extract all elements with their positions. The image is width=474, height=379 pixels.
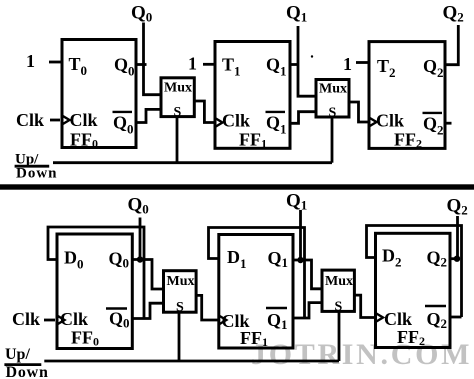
wire mux3 output to FF1 clk (bottom) [196, 295, 219, 320]
wire Q1 pin to mux4 input [293, 260, 322, 289]
wire Q2bar stub [445, 122, 452, 125]
svg-text:Mux: Mux [164, 81, 192, 96]
wire Q2bar pin stub (bottom) [450, 316, 462, 319]
svg-text:S: S [176, 300, 184, 315]
clock wedge FF2 [369, 118, 377, 127]
clock wedge FF1 [215, 118, 223, 127]
wire mux1 S select [176, 117, 179, 163]
flip-flop FF1 (top) box [215, 42, 290, 149]
svg-text:JOTRIN.COM: JOTRIN.COM [251, 338, 472, 371]
wire Q0 pin to mux3 input [132, 260, 163, 290]
svg-text:Clk: Clk [70, 110, 98, 130]
clock wedge FF0 [62, 116, 70, 125]
wire Q2 pin stub (bottom) [450, 257, 459, 260]
wire Q1bar to mux2 lower input [290, 112, 316, 124]
mux MUX4 (bottom) box [322, 270, 354, 311]
svg-text:Clk: Clk [12, 309, 40, 329]
flip-flop FF1 (bottom) box [219, 235, 293, 349]
svg-text:Up/: Up/ [5, 346, 30, 363]
wire Clk input to FF0 [50, 119, 60, 122]
stray speck [311, 55, 313, 57]
wire T0 input stub [49, 61, 62, 64]
flip-flop FF0 (top) box [62, 40, 136, 148]
svg-text:1: 1 [26, 51, 35, 71]
junction dot Q0 (bottom) [137, 256, 143, 262]
svg-text:Clk: Clk [16, 110, 44, 130]
svg-text:S: S [174, 105, 182, 120]
wire Up/Down bus (top) [53, 161, 332, 164]
wire node Q0 label vertical (bottom) [139, 218, 142, 260]
wire node Q0 vertical from label to mux1 input [144, 23, 162, 95]
wire mux1 output to FF1 clk [194, 101, 215, 123]
wire mux2 output to FF2 clk [349, 102, 369, 122]
wire Q0bar pin to mux3 lower input [132, 303, 163, 318]
clock wedge FF0 bottom [57, 316, 65, 325]
svg-text:1: 1 [188, 54, 197, 74]
mux MUX3 (bottom) box [164, 271, 197, 313]
wire FF2 feedback Q2bar to D2 over the top [367, 226, 462, 318]
wire T1 input stub [203, 63, 215, 66]
wire mux3 S select [178, 312, 181, 361]
wire T2 input stub [356, 61, 369, 64]
svg-text:Down: Down [6, 364, 49, 379]
svg-text:S: S [335, 300, 343, 315]
wire mux4 output to FF2 clk (bottom) [354, 295, 375, 317]
mux MUX2 (top) box [316, 80, 349, 118]
wire mux4 S select [338, 311, 341, 361]
junction dot Q1 (bottom) [297, 257, 303, 263]
wire mux2 S select [331, 117, 334, 163]
flip-flop FF2 (bottom) box [376, 233, 451, 347]
svg-text:Mux: Mux [167, 274, 195, 289]
wire Clk input to FF0 (bottom) [44, 319, 55, 322]
wire node Q1 label vertical (bottom) [299, 210, 302, 260]
wire Q1bar pin to mux4 lower input [293, 303, 322, 318]
flip-flop FF2 (top) box [369, 42, 445, 149]
svg-text:Mux: Mux [319, 82, 347, 97]
junction dot Q2 (bottom) [454, 256, 460, 262]
divider bar [0, 184, 474, 189]
wire Q0bar to mux1 lower input [136, 109, 161, 122]
wire FF0 feedback Q0bar to D0 over the top [48, 227, 144, 319]
svg-text:Clk: Clk [384, 309, 412, 329]
wire Q1 pin stub [290, 63, 299, 66]
wire node Q2 label vertical (bottom) [456, 216, 459, 259]
wire Q0 pin stub [136, 63, 147, 66]
clock wedge FF1 bottom [219, 316, 227, 325]
clock wedge FF2 bottom [376, 313, 384, 322]
svg-text:Clk: Clk [222, 111, 250, 131]
mux MUX1 (top) box [161, 78, 194, 117]
svg-text:Down: Down [16, 166, 58, 182]
wire Up/Down bus (bottom) [44, 360, 339, 363]
svg-text:Clk: Clk [376, 111, 404, 131]
wire Q2 output up to label [445, 25, 458, 65]
svg-text:Mux: Mux [325, 274, 353, 289]
wire FF1 feedback Q1bar to D1 over the top [209, 228, 305, 319]
wire node Q1 vertical from label to mux2 input [298, 26, 316, 96]
svg-text:S: S [329, 106, 337, 121]
svg-text:1: 1 [343, 54, 352, 74]
svg-text:Clk: Clk [60, 309, 88, 329]
wire Up/Down label fraction line (bottom) [4, 363, 41, 366]
flip-flop FF0 (bottom) box [57, 234, 132, 349]
wire Up/Down label fraction line (top) [15, 165, 50, 168]
